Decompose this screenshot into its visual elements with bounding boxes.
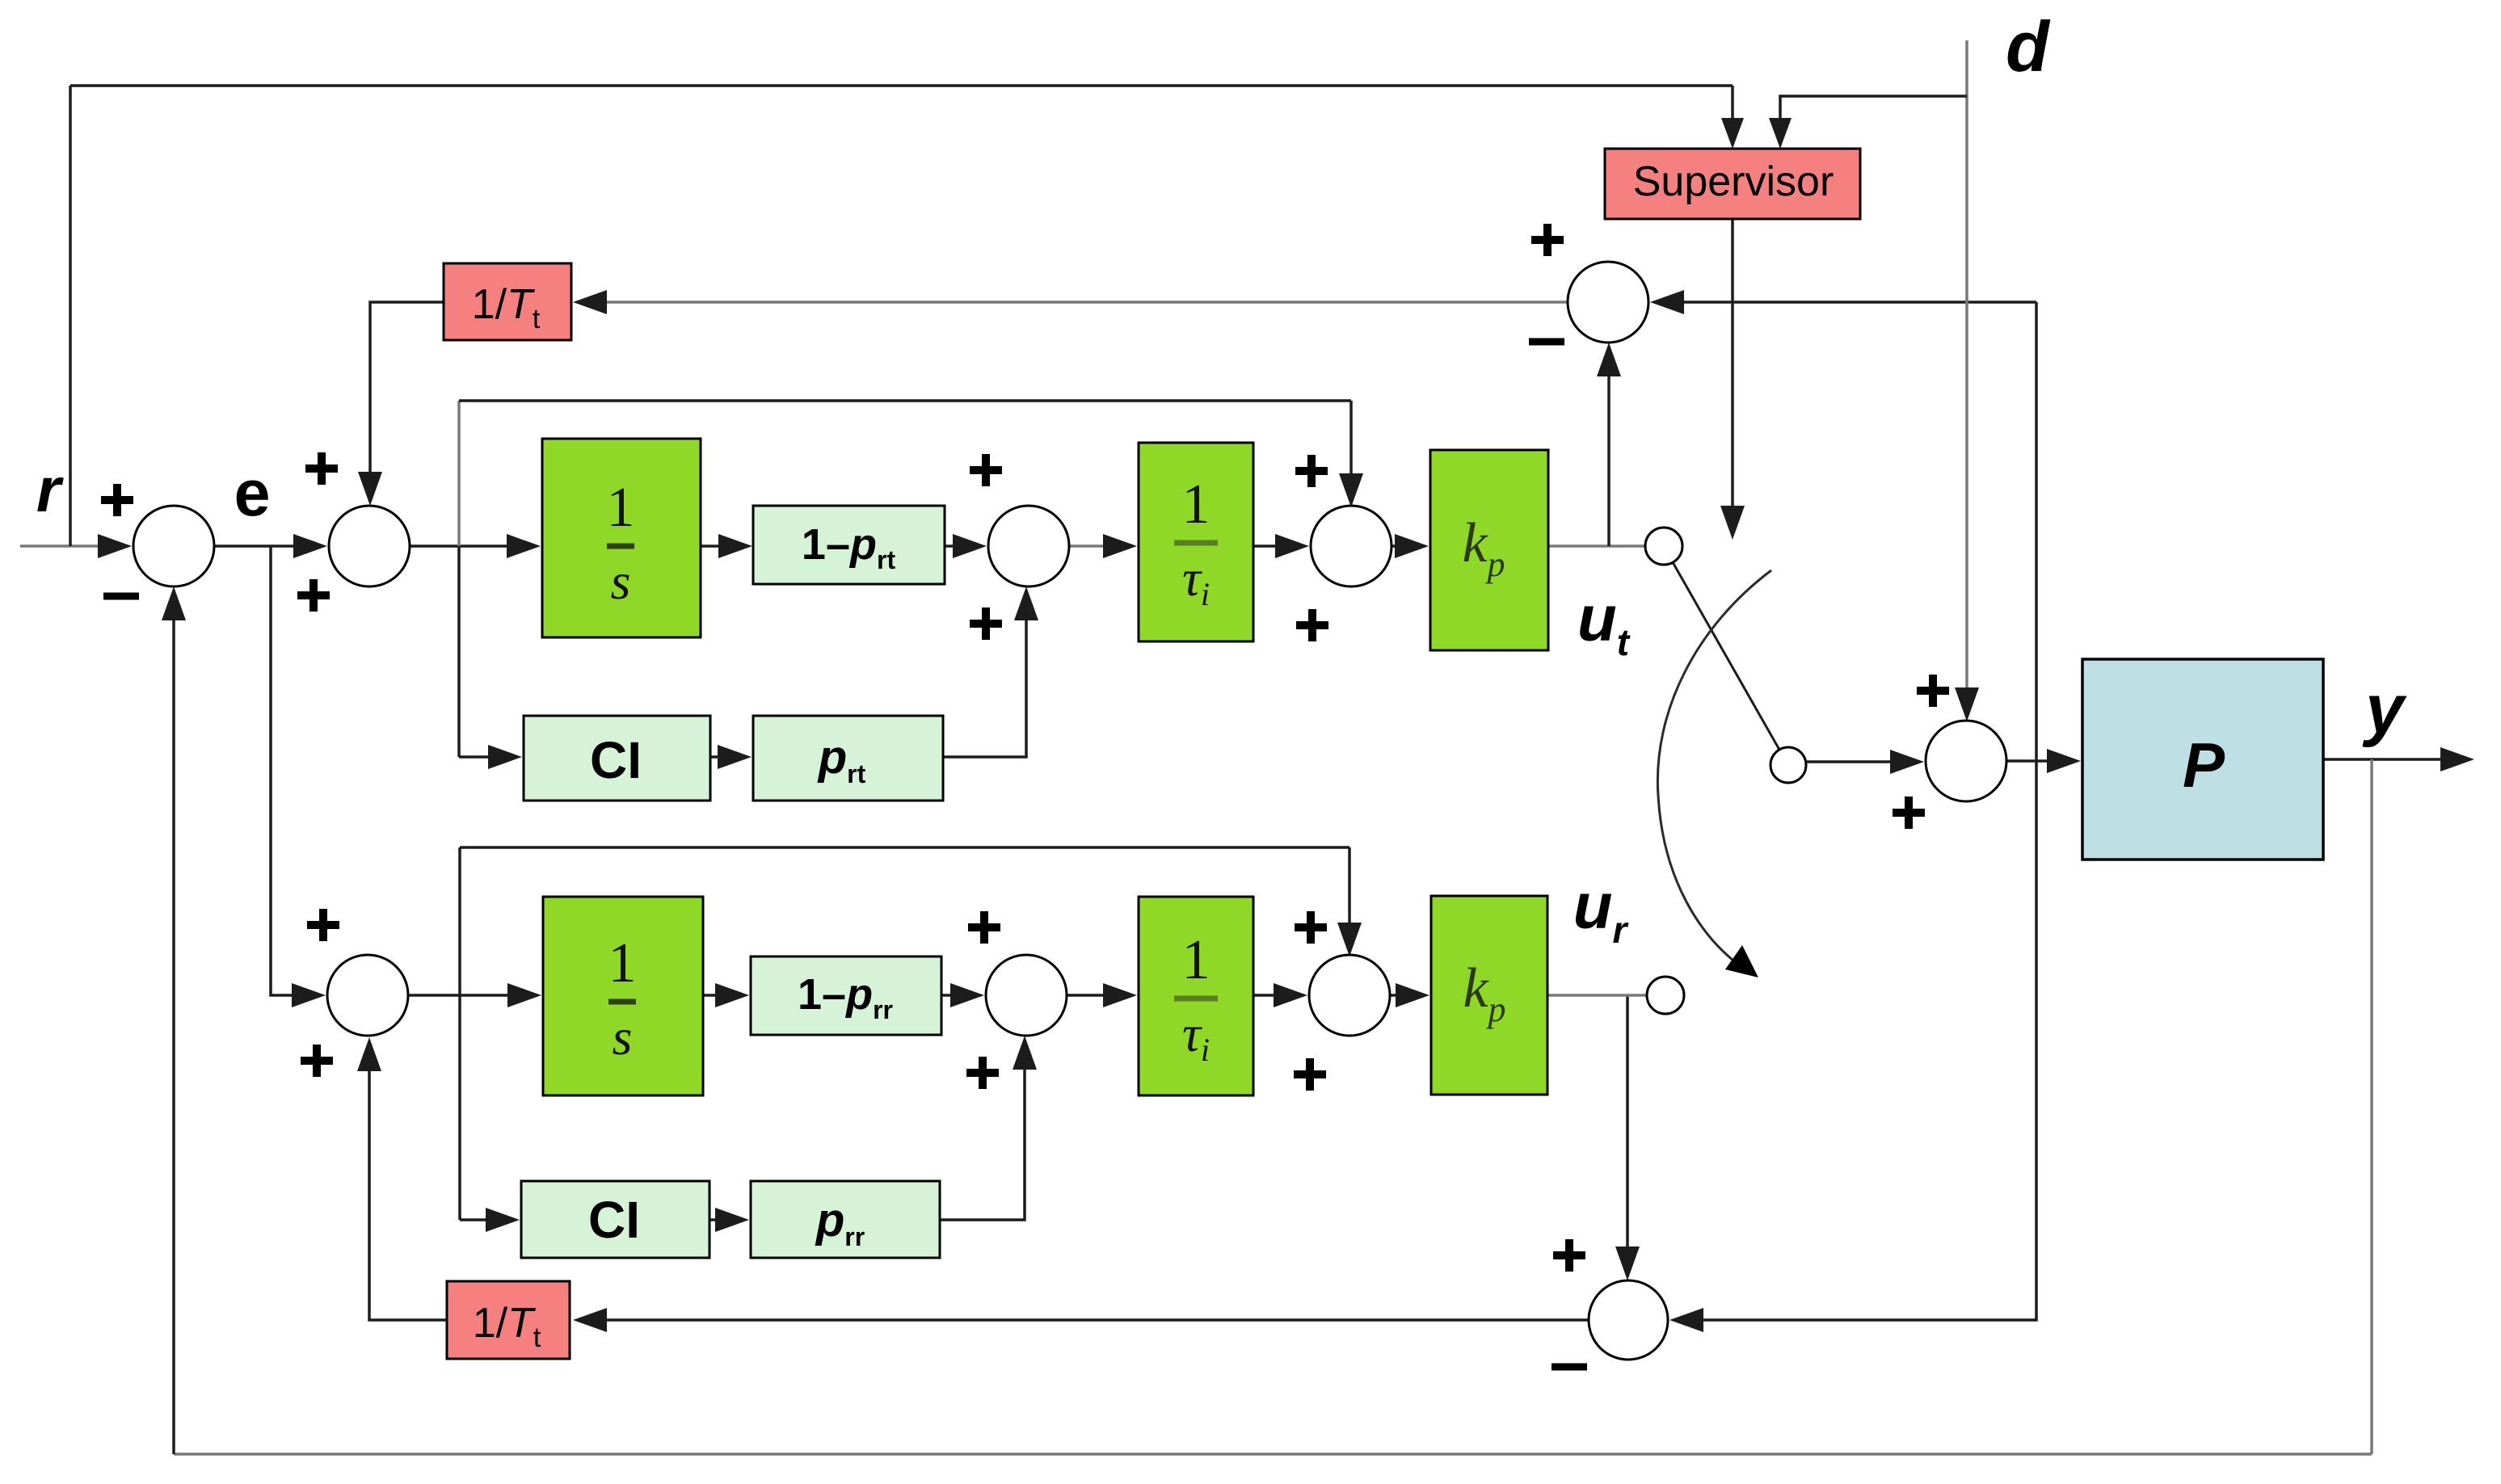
- wire: drop into supervisor from r line: [1721, 86, 1744, 149]
- wire: sum2 to integrator 1/s: [410, 534, 541, 558]
- wire: y feedback drop: [2370, 759, 2373, 1454]
- block CI (top): [524, 716, 710, 801]
- sign + at St: [1531, 224, 1564, 256]
- wire: 1/taui to S3: [1253, 534, 1309, 558]
- svg-text:r: r: [36, 454, 64, 525]
- wire: S3 to kp: [1392, 534, 1429, 558]
- wire: ut node up into tracking sum St: [1597, 343, 1621, 546]
- wire: S6 to kp bottom: [1390, 983, 1429, 1007]
- sign + below sum4: [301, 1045, 333, 1077]
- sign + at plant sum (switch input): [1893, 797, 1925, 829]
- sum junction S3 (integral + proportional): [1311, 506, 1392, 586]
- wire: 1/s to 1-prt box: [701, 534, 752, 558]
- wire: d branch into supervisor: [1769, 96, 1967, 149]
- block 1/Tt (top anti-windup gain): [444, 263, 571, 340]
- sign + below S3: [1296, 609, 1328, 641]
- wire: St output to 1/Tt (top): [573, 290, 1568, 314]
- sign + at Sr: [1553, 1239, 1585, 1272]
- svg-text:e: e: [234, 457, 270, 530]
- sum junction S2 (integrator + prt path): [988, 506, 1069, 586]
- wire: P output y: [2323, 747, 2474, 771]
- label d: [2006, 6, 2051, 86]
- label r: [36, 454, 64, 525]
- svg-text:1: 1: [607, 477, 635, 539]
- wire: branch into CI (bottom): [460, 1208, 520, 1232]
- label ur: [1573, 870, 1629, 951]
- sum junction S5 (integrator + prr path): [986, 955, 1067, 1036]
- svg-text:P: P: [2183, 729, 2225, 801]
- wire: 1-prr to S5: [941, 983, 984, 1007]
- sign + below S5: [966, 1057, 999, 1089]
- wire: e branch down to lower controller: [271, 546, 326, 1007]
- wire: switch blade ut-to-common: [1673, 562, 1779, 750]
- wire: kp bottom output to switch contact ur: [1547, 994, 1647, 997]
- wire: 1-prt to sum S2: [943, 534, 987, 558]
- sum junction 4 (e + antiwindup bottom): [327, 955, 408, 1036]
- sign + above S5: [968, 911, 1000, 944]
- sign - at Sr: [1552, 1364, 1587, 1371]
- block 1/taui (top): [1139, 443, 1253, 641]
- wire: plant-input pickoff to St right input: [1650, 290, 2036, 314]
- wire: proportional bypass horizontal (top): [459, 399, 1351, 402]
- svg-text:Supervisor: Supervisor: [1633, 158, 1834, 205]
- block integrator 1/s (bottom): [543, 897, 703, 1095]
- sum junction 2 (e + antiwindup top): [329, 506, 410, 586]
- block kp (bottom): [1431, 896, 1547, 1095]
- wire: junction vertical at e-wire (bypass up / CI down): [457, 401, 461, 757]
- block prr: [751, 1181, 940, 1258]
- block 1/taui (bottom): [1139, 897, 1253, 1095]
- wire: pickoff vertical up from plant input: [2035, 302, 2038, 761]
- sum junction 1 (r - y): [133, 506, 214, 586]
- wire: S2 to 1/taui: [1069, 534, 1137, 558]
- sum junction S6 (integral + proportional, bottom): [1309, 955, 1390, 1036]
- switch contact ur: [1647, 977, 1684, 1014]
- block CI (bottom): [521, 1181, 709, 1258]
- svg-text:1: 1: [1182, 473, 1211, 536]
- svg-text:CI: CI: [590, 731, 642, 789]
- block 1-prt (top): [753, 506, 945, 584]
- svg-text:CI: CI: [588, 1191, 640, 1249]
- block prt: [753, 716, 943, 801]
- wire: 1/s bottom to 1-prr: [703, 983, 749, 1007]
- wire: switch swing arc with arrow: [1657, 570, 1771, 977]
- wire: CI to prr: [709, 1208, 749, 1232]
- sum junction Sr (tracking, bottom): [1589, 1280, 1668, 1360]
- wire: supervisor output down to switch: [1720, 219, 1745, 540]
- wire: branch into CI (top): [459, 745, 522, 769]
- block 1-prr (bottom): [751, 956, 941, 1035]
- sign + at sum1: [101, 484, 133, 516]
- wire: bottom feedback run: [174, 1452, 2372, 1456]
- wire: bypass drop into sum S6: [1337, 847, 1362, 956]
- wire: left feedback up into sum1: [162, 586, 186, 1454]
- wire: r branch up to supervisor line: [69, 86, 72, 546]
- svg-text:1/Tt: 1/Tt: [472, 281, 541, 334]
- wire: Sr output to 1/Tt (bottom): [573, 1308, 1589, 1332]
- svg-text:1: 1: [608, 932, 637, 994]
- wire: plant-input pickoff down to Sr: [1669, 761, 2036, 1332]
- label e: [234, 457, 270, 530]
- svg-text:s: s: [613, 1008, 633, 1066]
- sign + above S6: [1295, 911, 1327, 944]
- sign + above S3: [1295, 455, 1328, 487]
- wire: disturbance d vertical: [1955, 40, 1979, 721]
- sign + at plant sum (d input): [1917, 675, 1949, 707]
- switch contact common: [1770, 747, 1806, 783]
- sign + below sum2: [297, 579, 330, 612]
- wire: prr output up into S5: [940, 1036, 1037, 1220]
- wire: top horizontal r-to-supervisor: [70, 84, 1733, 87]
- wire: sum4 to 1/s (bottom): [408, 983, 541, 1007]
- sign - at sum1: [103, 593, 139, 600]
- wire: prt output up into S2: [943, 586, 1038, 757]
- block Supervisor: [1605, 149, 1860, 219]
- label ut: [1577, 582, 1631, 663]
- wire: junction vertical lower controller: [458, 847, 461, 1220]
- block integrator 1/s (top): [542, 439, 701, 637]
- sign + below S6: [1294, 1058, 1326, 1091]
- wire: 1/taui bottom to S6: [1253, 983, 1307, 1007]
- sum junction at plant input: [1926, 721, 2006, 801]
- sign + above sum2: [305, 452, 338, 485]
- wire: r input into sum 1: [20, 534, 132, 558]
- wire: 1/Tt bottom output up into sum4: [357, 1037, 447, 1320]
- wire: switch common to plant sum: [1806, 750, 1924, 774]
- svg-text:y: y: [2362, 671, 2407, 748]
- wire: plant sum to P: [2006, 749, 2081, 773]
- switch contact ut: [1645, 528, 1682, 565]
- svg-text:1/Tt: 1/Tt: [473, 1300, 541, 1353]
- wire: bypass drop into sum S3: [1339, 401, 1363, 507]
- sign - at St: [1529, 338, 1564, 346]
- block plant P: [2082, 659, 2323, 860]
- sign + below S2: [970, 607, 1002, 640]
- wire: 1/Tt output down into sum2: [358, 302, 444, 506]
- wire: proportional bypass horizontal (bottom): [460, 846, 1349, 849]
- wire: e from sum1 to sum2: [214, 534, 327, 558]
- wire: ur node down into tracking sum Sr: [1615, 995, 1640, 1280]
- sum junction St (tracking, top): [1568, 262, 1648, 343]
- wire: kp output to switch contact ut: [1548, 544, 1645, 548]
- block 1/Tt (bottom anti-windup gain): [447, 1281, 570, 1359]
- svg-text:s: s: [611, 553, 631, 610]
- wire: S5 to 1/taui bottom: [1067, 983, 1137, 1007]
- sign + above S2: [970, 454, 1002, 486]
- wire: CI to prt: [710, 745, 752, 769]
- svg-text:d: d: [2006, 6, 2051, 86]
- svg-text:1: 1: [1182, 929, 1211, 991]
- block kp (top): [1430, 450, 1548, 650]
- sign + above sum4: [307, 909, 339, 941]
- label y: [2362, 671, 2407, 748]
